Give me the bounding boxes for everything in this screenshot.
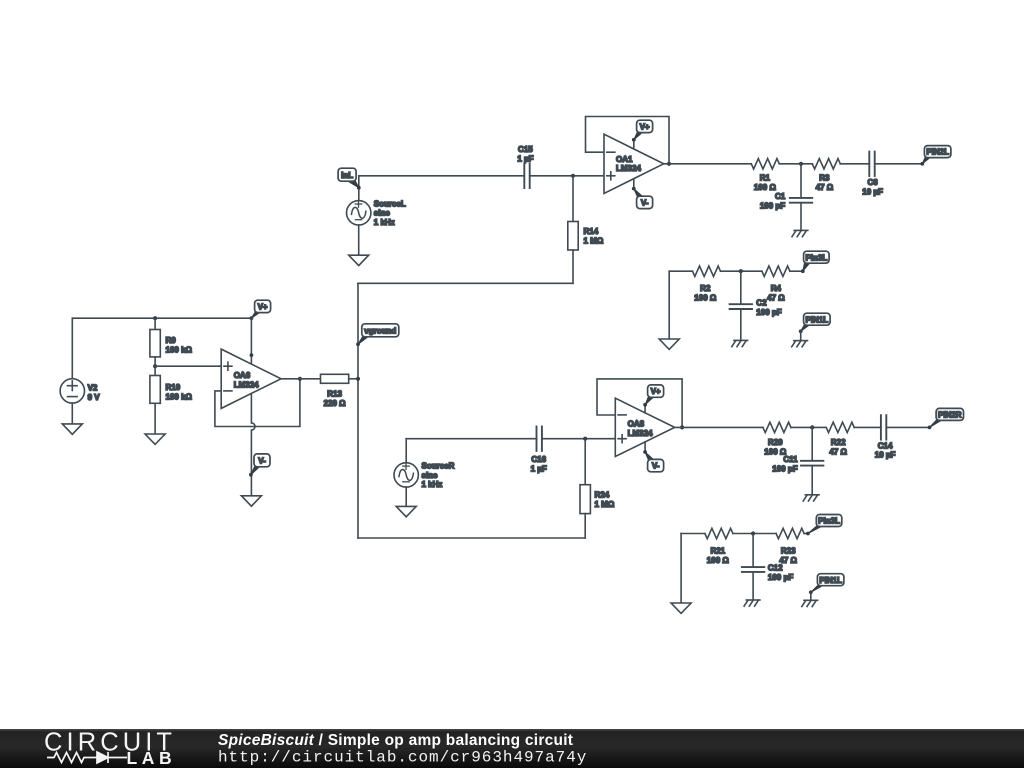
svg-text:100 kΩ: 100 kΩ <box>166 346 193 355</box>
wire <box>155 365 221 367</box>
svg-text:C11: C11 <box>783 455 798 464</box>
ground <box>349 255 369 265</box>
wire <box>800 164 802 198</box>
node C2 top <box>739 269 743 273</box>
svg-text:R22: R22 <box>831 438 846 447</box>
wire <box>250 318 252 364</box>
svg-text:1 MΩ: 1 MΩ <box>584 237 604 246</box>
svg-text:1 MΩ: 1 MΩ <box>595 500 615 509</box>
wire <box>669 270 692 272</box>
ground <box>744 600 760 606</box>
resistor R9 100 kΩ <box>150 330 193 357</box>
capacitor C12 100 pF <box>742 563 793 582</box>
svg-text:R14: R14 <box>584 227 599 236</box>
capacitor C14 10 µF <box>875 415 896 460</box>
svg-text:100 kΩ: 100 kΩ <box>166 393 193 402</box>
ground <box>396 506 416 516</box>
resistor R1 100 Ω <box>751 159 779 193</box>
svg-text:100 pF: 100 pF <box>768 573 793 582</box>
svg-text:SourceL: SourceL <box>374 199 406 208</box>
svg-text:R10: R10 <box>166 383 181 392</box>
svg-text:V-: V- <box>641 199 649 208</box>
capacitor C2 100 pF <box>730 298 782 317</box>
node C12 top <box>751 531 755 535</box>
resistor R10 100 kΩ <box>150 376 193 404</box>
ground <box>671 603 691 613</box>
resistor R24 1 MΩ <box>580 485 615 514</box>
wire <box>740 271 742 304</box>
node Pin3L flag <box>801 251 829 273</box>
svg-text:100 Ω: 100 Ω <box>707 556 730 565</box>
wire <box>281 378 321 380</box>
wire <box>811 466 813 495</box>
svg-text:LM324: LM324 <box>234 380 259 389</box>
svg-text:LM324: LM324 <box>616 164 641 173</box>
svg-text:V+: V+ <box>258 303 268 312</box>
op-amp OA1 V+ pin <box>633 140 635 149</box>
svg-text:1 µF: 1 µF <box>531 465 547 474</box>
wire <box>349 378 358 380</box>
svg-text:LAB: LAB <box>127 748 177 768</box>
op-amp OA8 V- pin <box>644 442 646 452</box>
wire <box>810 592 812 600</box>
svg-text:100 Ω: 100 Ω <box>754 183 777 192</box>
wire <box>154 403 156 434</box>
svg-text:10 µF: 10 µF <box>862 188 883 197</box>
op-amp OA8 LM324 <box>615 398 674 456</box>
capacitor C1 100 pF <box>760 192 812 211</box>
wire <box>358 225 360 255</box>
svg-text:1 kHz: 1 kHz <box>422 480 443 489</box>
svg-text:R21: R21 <box>710 546 725 555</box>
node R9 top <box>153 316 157 320</box>
node V+ flag <box>632 120 653 142</box>
ground <box>732 340 748 346</box>
svg-text:PIN1L: PIN1L <box>806 315 829 324</box>
wire <box>154 357 156 376</box>
node R24 top <box>583 437 587 441</box>
op-amp OA6 V- pin wire with hop <box>251 394 255 496</box>
op-amp OA6 LM324 <box>221 349 281 408</box>
node R13-bus <box>356 377 360 381</box>
svg-text:OA1: OA1 <box>616 155 633 164</box>
ground <box>803 495 819 501</box>
wire <box>597 379 682 428</box>
svg-text:9 V: 9 V <box>88 393 101 402</box>
wire <box>71 318 73 379</box>
wire <box>675 426 763 428</box>
wire <box>800 331 802 340</box>
svg-text:V-: V- <box>258 456 266 465</box>
svg-text:10 µF: 10 µF <box>875 451 896 460</box>
node C1 top <box>799 162 803 166</box>
wire <box>359 175 525 177</box>
wire <box>72 317 251 319</box>
node OA6 out <box>298 377 302 381</box>
CircuitLab logo <box>44 729 176 768</box>
svg-text:1 µF: 1 µF <box>517 154 533 163</box>
svg-text:C6: C6 <box>867 178 878 187</box>
svg-text:R3: R3 <box>819 174 830 183</box>
node OA1 out <box>667 162 671 166</box>
wire <box>584 514 586 538</box>
resistor R23 47 Ω <box>776 528 804 565</box>
svg-text:R9: R9 <box>166 336 177 345</box>
wire <box>721 270 762 272</box>
ground <box>145 434 165 444</box>
svg-text:V2: V2 <box>88 383 98 392</box>
wire <box>586 117 670 164</box>
wire <box>358 282 573 284</box>
svg-text:SpiceBiscuit / Simple op amp b: SpiceBiscuit / Simple op amp balancing c… <box>218 732 573 749</box>
svg-text:C14: C14 <box>878 441 893 450</box>
svg-text:C2: C2 <box>756 298 767 307</box>
wire <box>811 427 813 460</box>
svg-text:PIN2R: PIN2R <box>938 411 962 420</box>
svg-text:vground: vground <box>364 326 396 335</box>
svg-text:47 Ω: 47 Ω <box>767 294 785 303</box>
svg-text:R4: R4 <box>771 284 782 293</box>
svg-text:SourceR: SourceR <box>422 462 455 471</box>
resistor R3 47 Ω <box>812 159 840 193</box>
svg-text:Pin3L: Pin3L <box>805 253 827 262</box>
wire <box>542 438 615 440</box>
ground <box>792 341 808 347</box>
node PIN2R flag <box>928 408 964 429</box>
op-amp OA1 V- pin <box>633 179 635 189</box>
svg-text:R13: R13 <box>327 389 342 398</box>
node C11 top <box>810 425 814 429</box>
wire <box>572 176 574 222</box>
wire <box>733 533 776 535</box>
op-amp OA1 LM324 <box>604 134 664 193</box>
svg-text:100 pF: 100 pF <box>756 308 781 317</box>
svg-text:OA8: OA8 <box>628 420 645 429</box>
resistor R21 100 Ω <box>705 528 733 565</box>
wire <box>800 203 802 231</box>
node R14 top <box>571 174 575 178</box>
svg-text:100 Ω: 100 Ω <box>694 294 717 303</box>
svg-text:http://circuitlab.com/cr963h49: http://circuitlab.com/cr963h497a74y <box>218 749 587 767</box>
wire <box>752 572 754 600</box>
svg-text:V-: V- <box>652 462 660 471</box>
svg-text:100 pF: 100 pF <box>760 202 785 211</box>
svg-text:V+: V+ <box>640 123 650 132</box>
wire <box>584 439 586 485</box>
node V- flag <box>632 187 653 209</box>
wire <box>664 163 752 165</box>
node V- flag <box>643 450 663 472</box>
wire <box>791 426 826 428</box>
svg-text:C16: C16 <box>531 455 546 464</box>
ground <box>62 424 82 434</box>
svg-text:R2: R2 <box>700 284 711 293</box>
svg-text:100 pF: 100 pF <box>772 465 797 474</box>
node PIN1L flag <box>809 574 844 594</box>
node Pin3L flag <box>806 515 842 536</box>
wire <box>572 250 574 283</box>
wire <box>680 534 682 604</box>
wire <box>154 318 156 329</box>
wire <box>840 163 869 165</box>
wire <box>740 309 742 340</box>
svg-text:OA6: OA6 <box>234 371 251 380</box>
node V+ flag <box>250 300 271 320</box>
node OA8 out <box>680 425 684 429</box>
ground <box>792 230 808 236</box>
svg-text:Pin3L: Pin3L <box>818 517 840 526</box>
node V+ flag <box>643 385 663 407</box>
svg-text:C12: C12 <box>768 563 783 572</box>
svg-text:R24: R24 <box>595 490 610 499</box>
capacitor C11 100 pF <box>772 455 823 474</box>
footer bar <box>0 729 1024 768</box>
svg-text:R1: R1 <box>760 174 771 183</box>
resistor R2 100 Ω <box>693 266 721 303</box>
svg-text:C15: C15 <box>518 145 533 154</box>
node OA6 V+ pin <box>250 353 254 357</box>
wire <box>779 163 812 165</box>
svg-text:LM324: LM324 <box>628 429 653 438</box>
svg-text:C1: C1 <box>775 192 786 201</box>
node vground flag <box>356 324 399 346</box>
wire <box>875 163 922 165</box>
wire <box>405 439 407 463</box>
svg-text:47 Ω: 47 Ω <box>816 183 834 192</box>
svg-text:sine: sine <box>422 471 439 480</box>
svg-text:R20: R20 <box>768 438 783 447</box>
node PIN2L flag <box>920 146 951 166</box>
resistor R13 220 ohm <box>321 374 349 408</box>
wire <box>71 403 73 424</box>
svg-text:PIN1L: PIN1L <box>819 576 842 585</box>
voltage source SourceL (sine) <box>347 199 406 227</box>
node V- flag <box>249 454 270 477</box>
wire <box>668 271 670 339</box>
ground <box>241 496 261 506</box>
svg-text:1 kHz: 1 kHz <box>374 218 395 227</box>
node InL flag <box>338 168 361 189</box>
svg-text:220 Ω: 220 Ω <box>324 399 347 408</box>
ground <box>659 339 679 349</box>
wire <box>854 426 881 428</box>
node PIN1L flag <box>799 313 830 333</box>
wire <box>358 537 585 539</box>
wire <box>887 426 930 428</box>
resistor R22 47 Ω <box>826 422 854 457</box>
wire <box>681 533 705 535</box>
svg-text:47 Ω: 47 Ω <box>829 448 847 457</box>
wire <box>405 487 407 506</box>
wire <box>358 176 360 201</box>
logo resistor-diode glyph <box>47 752 127 763</box>
wire <box>804 533 808 535</box>
svg-text:PIN2L: PIN2L <box>926 148 949 157</box>
ground <box>802 600 818 606</box>
wire <box>357 283 359 538</box>
svg-text:InL: InL <box>341 171 353 180</box>
wire <box>752 534 754 568</box>
wire <box>215 379 300 427</box>
svg-text:sine: sine <box>374 209 391 218</box>
wire <box>790 270 803 272</box>
svg-text:R23: R23 <box>781 546 796 555</box>
capacitor C6 10 µF <box>862 152 883 197</box>
resistor R20 100 Ω <box>763 422 791 457</box>
resistor R14 1 MΩ <box>568 222 604 251</box>
voltage source SourceR (sine) <box>394 462 455 490</box>
node R9-R10 <box>153 364 157 368</box>
wire <box>406 438 536 440</box>
capacitor C16 1 µF <box>531 427 547 474</box>
capacitor C15 1 µF <box>517 145 533 188</box>
wire <box>530 175 604 177</box>
resistor R4 47 Ω <box>762 266 790 303</box>
voltage source V2 9V <box>60 379 100 403</box>
svg-text:V+: V+ <box>651 387 661 396</box>
op-amp OA8 V+ pin <box>644 405 646 413</box>
